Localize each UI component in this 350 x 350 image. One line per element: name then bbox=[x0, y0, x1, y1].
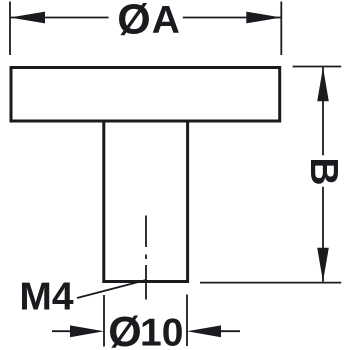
svg-text:10: 10 bbox=[140, 312, 183, 350]
svg-text:Ø: Ø bbox=[117, 0, 150, 44]
svg-text:M4: M4 bbox=[19, 276, 73, 319]
svg-text:B: B bbox=[302, 157, 345, 185]
svg-text:Ø: Ø bbox=[108, 308, 141, 350]
svg-text:A: A bbox=[152, 0, 180, 42]
